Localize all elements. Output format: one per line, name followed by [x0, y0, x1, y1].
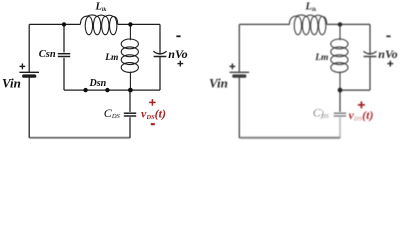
svg-text:nVo: nVo: [378, 47, 397, 61]
svg-text:nVo: nVo: [168, 47, 187, 61]
svg-text:Dsn: Dsn: [89, 78, 107, 89]
svg-text:Llk: Llk: [95, 2, 107, 14]
svg-text:Vin: Vin: [2, 76, 21, 91]
svg-text:Lm: Lm: [104, 53, 118, 63]
svg-text:vDS(t): vDS(t): [349, 108, 374, 122]
svg-text:vDS(t): vDS(t): [141, 107, 166, 121]
svg-text:Vin: Vin: [209, 76, 228, 91]
svg-text:): ): [320, 109, 325, 120]
svg-text:CDS: CDS: [104, 106, 121, 120]
svg-text:Csn: Csn: [39, 49, 56, 60]
svg-text:Lm: Lm: [314, 53, 328, 63]
svg-text:Llk: Llk: [305, 2, 317, 14]
